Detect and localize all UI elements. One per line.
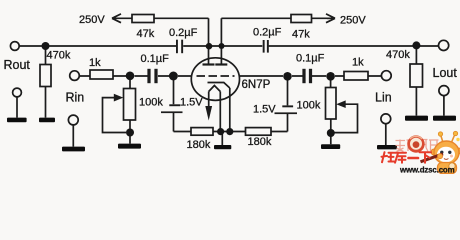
potentiometer RP 100k right <box>326 88 337 120</box>
terminal Lout lower <box>439 86 449 96</box>
svg-text:1k: 1k <box>89 57 101 69</box>
terminal Lin <box>381 71 391 81</box>
svg-text:470k: 470k <box>47 50 71 62</box>
watermark mascot <box>421 131 460 173</box>
wire main rail left segment <box>19 45 176 47</box>
ground under Rin <box>62 147 85 152</box>
wire 470k right stub <box>415 46 417 116</box>
wire Rout lower stem <box>16 97 18 118</box>
terminal Lin lower <box>381 114 391 124</box>
wire wiper left pot <box>103 98 127 133</box>
wire cathode ground stem <box>221 132 223 146</box>
battery B 1.5V right <box>275 105 298 114</box>
resistor R 47k left <box>132 15 154 23</box>
node rail-plate left <box>206 43 213 50</box>
wire wiper right pot <box>335 104 358 132</box>
wire bias row left <box>174 131 192 133</box>
potentiometer RP 100k left <box>124 89 136 121</box>
capacitor C 0.2uF right <box>263 40 269 53</box>
svg-text:180k: 180k <box>248 136 272 148</box>
wire Lout stem <box>443 96 445 116</box>
svg-text:250V: 250V <box>79 14 105 26</box>
svg-text:Rout: Rout <box>4 58 31 72</box>
node pot top left <box>126 72 135 81</box>
resistor R 180k right <box>246 128 272 136</box>
node cathode left <box>217 128 224 135</box>
resistor R 47k right <box>291 15 312 23</box>
node grid-battery right <box>283 72 292 81</box>
wiper arrow right pot <box>336 100 346 108</box>
node pot top right <box>326 72 335 81</box>
svg-text:470k: 470k <box>386 49 410 61</box>
ground under 470k left <box>39 118 55 123</box>
wire pot top stub right <box>330 76 332 88</box>
watermark outlined chars <box>396 140 439 152</box>
ground cathode <box>214 145 231 149</box>
tube plate right <box>215 63 227 65</box>
wire 470k left stub <box>45 46 47 118</box>
wire bias row right <box>271 131 288 133</box>
svg-text:250V: 250V <box>340 15 366 27</box>
wire Lin stem <box>385 124 387 145</box>
svg-text:1.5V: 1.5V <box>253 104 276 116</box>
wire pot bottom stem right <box>330 119 332 144</box>
wire pot bottom stem left <box>129 120 131 144</box>
tube plate left <box>203 63 215 65</box>
node rail-plate right <box>219 43 225 49</box>
terminal Rin lower <box>68 115 78 125</box>
svg-text:6N7P: 6N7P <box>242 79 271 91</box>
svg-text:Rin: Rin <box>66 91 85 105</box>
capacitor C 0.1uF right <box>302 69 312 83</box>
wire grid row left <box>79 75 192 77</box>
svg-text:www.dzsc.com: www.dzsc.com <box>399 165 455 174</box>
svg-text:47k: 47k <box>292 29 310 41</box>
tube V1 6N7P envelope <box>191 58 239 101</box>
ground bars <box>7 116 456 152</box>
terminal Lout upper <box>439 40 449 50</box>
terminal Rout upper <box>10 42 19 51</box>
svg-text:Lout: Lout <box>433 66 458 80</box>
svg-text:0.2µF: 0.2µF <box>253 27 282 39</box>
svg-text:0.1µF: 0.1µF <box>296 53 325 65</box>
watermark group <box>382 131 460 174</box>
terminal Rin <box>70 71 80 81</box>
svg-text:1.5V: 1.5V <box>180 97 203 109</box>
svg-text:100k: 100k <box>297 100 321 112</box>
wire main rail mid segment <box>183 45 262 47</box>
wire Rin stem <box>72 125 74 147</box>
wire main rail right segment <box>269 45 439 47</box>
resistor R 1k right <box>344 72 368 81</box>
ground under Lin <box>377 145 397 149</box>
node right plate lead <box>220 46 222 65</box>
svg-text:Lin: Lin <box>375 91 392 105</box>
wiper arrow left pot <box>114 94 124 102</box>
node rail-470k right <box>412 41 420 49</box>
svg-text:47k: 47k <box>137 28 155 40</box>
battery B 1.5V left <box>161 104 183 113</box>
ground under pot right <box>321 144 340 149</box>
wire pot top stub left <box>129 76 131 89</box>
capacitor C 0.1uF left <box>147 69 157 83</box>
resistor R 180k left <box>191 128 213 136</box>
wire bias row center <box>213 131 246 133</box>
ground under pot left <box>118 144 141 149</box>
node rail-470k left <box>42 42 50 50</box>
svg-text:1k: 1k <box>352 57 364 69</box>
resistor R 470k left <box>40 65 51 87</box>
wire top rail left <box>120 18 209 46</box>
resistor R 1k left <box>90 70 113 79</box>
svg-text:100k: 100k <box>139 97 163 109</box>
resistor R 470k right <box>410 64 423 87</box>
heater arrow <box>205 106 212 121</box>
node pot bottom left <box>126 129 134 137</box>
node cathode right <box>226 128 233 135</box>
terminal Rout lower <box>13 88 22 97</box>
arrow 250V right <box>326 14 335 23</box>
ground under Rout lower <box>7 118 27 123</box>
watermark text weiku <box>382 152 432 163</box>
watermark red disc <box>407 135 424 152</box>
node grid-battery left <box>169 72 178 81</box>
capacitor C 0.2uF left <box>176 40 183 54</box>
wire battery stub right <box>287 76 289 132</box>
ground under Lout <box>433 116 456 121</box>
tube heater <box>209 86 221 132</box>
svg-text:180k: 180k <box>187 139 211 151</box>
arrow 250V left <box>112 14 121 23</box>
wire top rail right <box>221 18 330 46</box>
node pot bottom right <box>327 129 335 137</box>
tube cathode <box>208 83 230 132</box>
svg-text:0.2µF: 0.2µF <box>169 27 198 39</box>
wire grid row right <box>239 75 381 77</box>
node left plate lead <box>208 46 210 65</box>
svg-text:0.1µF: 0.1µF <box>141 53 170 65</box>
wire battery stub left <box>173 76 175 132</box>
ground under 470k right <box>405 116 428 121</box>
tube grid dashed <box>197 75 235 77</box>
